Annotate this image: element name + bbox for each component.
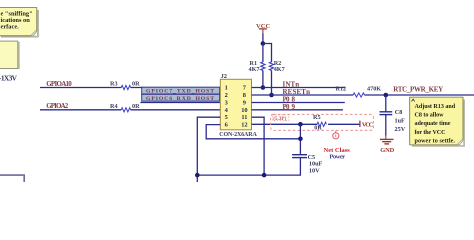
wire C8 branch vertical: [385, 95, 387, 112]
svg-text:R12: R12: [336, 85, 347, 92]
wire pin12 to R5: [252, 123, 318, 125]
svg-text:0R: 0R: [132, 103, 140, 110]
note N1 top-left sticky note: [0, 8, 39, 38]
wire INTn: [252, 87, 345, 89]
svg-text:4K7: 4K7: [274, 66, 285, 73]
wire R4 to pin4: [131, 109, 221, 111]
svg-text:1uF: 1uF: [395, 117, 406, 124]
node VCC branch junction: [261, 41, 266, 46]
wire R3 to pin1: [131, 87, 221, 89]
node C5 top junction: [298, 137, 303, 142]
svg-text:11: 11: [241, 114, 247, 121]
net label GPIOC6_RXD_HOST (selected): [142, 94, 220, 102]
svg-text:GPIOC6_RXD_HOST: GPIOC6_RXD_HOST: [146, 96, 214, 102]
wire R5 to VCC port: [328, 123, 360, 125]
svg-text:10uF: 10uF: [309, 161, 323, 168]
net label GPIOC7_TXD_HOST (selected): [142, 87, 220, 95]
svg-text:Adjust R13 and: Adjust R13 and: [415, 104, 456, 110]
designator J2: [221, 73, 227, 80]
directive tag (5.3P): [272, 115, 289, 122]
wire VCC down: [262, 33, 264, 43]
svg-text:GPIOA10: GPIOA10: [46, 80, 72, 88]
svg-text:RTC_PWR_KEY: RTC_PWR_KEY: [393, 85, 443, 93]
svg-text:8: 8: [243, 92, 246, 99]
resistor R4: [110, 103, 140, 112]
directive dashed blanket box: [271, 114, 374, 130]
wire P0_8: [252, 102, 345, 104]
svg-text:10V: 10V: [309, 168, 320, 175]
net label P0_8: [283, 95, 296, 103]
wire R12 to RTC_PWR_KEY: [364, 94, 474, 96]
wire R1 to INTn: [262, 70, 264, 87]
wire R2 to RESETn: [271, 70, 273, 95]
node R5 wire / C5 branch junction: [298, 122, 303, 127]
wire VCC to R1: [262, 44, 264, 63]
svg-text:0R: 0R: [132, 81, 140, 88]
wire pin6 route left-down-right: [206, 125, 300, 139]
wire C5 branch vertical: [299, 124, 301, 154]
pin numbers right column: [241, 85, 247, 129]
value CON-2X6ARA: [219, 132, 257, 138]
node bottom-middle junction: [262, 173, 267, 178]
connector CON-1X3V partial body: [0, 41, 20, 82]
power port GND: [380, 136, 395, 154]
svg-text:10: 10: [241, 107, 247, 114]
svg-text:4K7: 4K7: [249, 66, 260, 73]
svg-text:C8: C8: [395, 109, 403, 116]
svg-text:R3: R3: [110, 81, 118, 88]
net label P0_9: [283, 103, 296, 111]
note N2 right sticky note: [410, 97, 465, 147]
svg-text:(5.3P): (5.3P): [273, 115, 286, 122]
resistor R5: [313, 114, 326, 132]
resistor R3: [110, 81, 140, 90]
svg-text:1: 1: [225, 85, 228, 92]
svg-text:25V: 25V: [395, 126, 406, 133]
svg-text:CON-2X6ARA: CON-2X6ARA: [219, 132, 257, 138]
node R1-INTn junction: [261, 85, 266, 90]
svg-text:GPIOC7_TXD_HOST: GPIOC7_TXD_HOST: [146, 89, 214, 95]
svg-text:for the VCC: for the VCC: [415, 130, 446, 136]
node bottom-left junction: [195, 173, 200, 178]
net label GPIOA2: [46, 102, 68, 110]
connector J2 body: [220, 79, 251, 130]
svg-text:Power: Power: [329, 154, 345, 161]
directive Net Class Power: [324, 131, 351, 161]
net label RTC_PWR_KEY: [393, 85, 443, 93]
node R2-RESETn junction: [269, 93, 274, 98]
svg-text:P0_9: P0_9: [283, 103, 296, 111]
wire pin2 stub: [142, 94, 221, 96]
svg-text:9: 9: [243, 99, 246, 106]
svg-text:-1X3V: -1X3V: [0, 73, 18, 82]
power port VCC right (bar style): [360, 121, 374, 129]
wire RESETn to R12: [252, 94, 354, 96]
svg-text:5: 5: [225, 114, 228, 121]
resistor R12: [336, 85, 382, 97]
wire P0_9: [252, 109, 343, 111]
svg-text:R4: R4: [110, 103, 118, 110]
svg-text:erface.: erface.: [1, 24, 20, 31]
wire pin3 stub: [140, 102, 220, 104]
wire C5 bottom to bus: [197, 158, 300, 176]
wire branch to R2: [263, 44, 272, 63]
svg-text:J2: J2: [221, 73, 227, 80]
wire GPIOA2 to R4: [40, 109, 121, 111]
svg-text:3: 3: [225, 99, 228, 106]
svg-text:GPIOA2: GPIOA2: [46, 102, 68, 110]
wire GPIOA10 to R3: [40, 87, 121, 89]
svg-text:C8 to allow: C8 to allow: [415, 113, 445, 119]
power port VCC top: [256, 23, 271, 33]
resistor R1: [249, 60, 266, 73]
wire C8 to GND: [385, 115, 387, 136]
pin numbers left column: [225, 85, 229, 129]
net label RESETn: [283, 88, 311, 96]
sheet symbol corner bottom-left: [0, 175, 24, 182]
net label GPIOA10: [46, 80, 72, 88]
net label INTn: [283, 80, 300, 88]
wire pin5 route left-down: [197, 117, 220, 182]
svg-text:VCC: VCC: [362, 121, 374, 128]
svg-text:12: 12: [241, 122, 247, 129]
resistor R2: [269, 60, 284, 73]
svg-text:0R: 0R: [314, 125, 322, 132]
svg-text:GND: GND: [380, 147, 394, 154]
svg-text:470K: 470K: [367, 85, 381, 92]
wire pin11 route right-down: [252, 117, 265, 175]
capacitor C8: [380, 109, 406, 133]
node RTC junction: [384, 93, 389, 98]
capacitor C5: [292, 154, 322, 175]
svg-text:R5: R5: [313, 114, 321, 121]
svg-text:power to settle.: power to settle.: [415, 138, 456, 144]
svg-text:2: 2: [225, 92, 228, 99]
svg-text:adequate time: adequate time: [415, 121, 451, 127]
